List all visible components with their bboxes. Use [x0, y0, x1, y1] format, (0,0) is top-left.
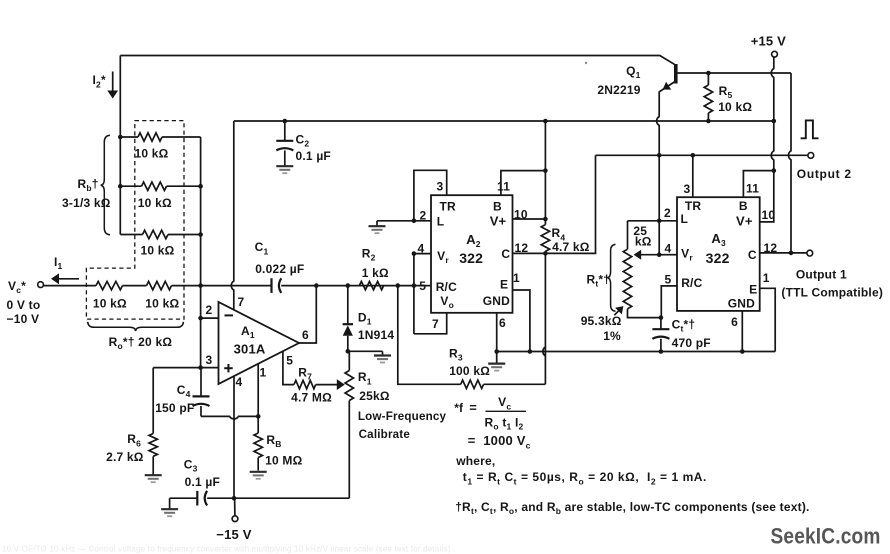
ground C2	[276, 166, 293, 173]
label Vc range1	[7, 298, 41, 312]
svg-text:Low-Frequency: Low-Frequency	[358, 410, 447, 423]
label A2 pin7	[432, 317, 439, 331]
wire A2 E row	[513, 290, 530, 352]
node rail R5	[706, 119, 711, 124]
svg-text:Ro t1 I2: Ro t1 I2	[485, 415, 524, 431]
wire R3 to pin12 vertical	[543, 253, 546, 384]
label R3 value	[449, 364, 490, 378]
wire top I2 feed line	[120, 56, 676, 66]
svg-text:Ct*†: Ct*†	[672, 317, 696, 333]
resistor R6 2.7k	[149, 434, 157, 457]
label C3	[184, 457, 198, 473]
node rail +15V lead	[772, 119, 777, 124]
label Rb-2 value	[138, 196, 172, 210]
label C4	[177, 383, 191, 399]
wire collector output vertical	[788, 73, 791, 253]
label Rt	[587, 272, 611, 288]
caption faint	[2, 545, 451, 554]
resistor Rb-3 10k	[120, 230, 200, 238]
svg-text:25kΩ: 25kΩ	[359, 389, 390, 403]
wire main row right of C1	[281, 285, 431, 287]
label C2	[296, 132, 310, 148]
label A3 pin5	[665, 272, 672, 286]
svg-text:4: 4	[665, 241, 672, 255]
terminal Vc input	[38, 282, 44, 288]
wire pin3 to R6	[152, 368, 154, 434]
note dagger	[455, 500, 809, 516]
node emitter A3 L join	[657, 219, 662, 224]
label R2	[362, 246, 376, 262]
transistor Q1 2N2219	[660, 64, 709, 92]
resistor Ro-2 10k	[147, 281, 172, 289]
wire A2 pin11 loop	[501, 171, 546, 196]
svg-text:0.022 µF: 0.022 µF	[255, 262, 304, 276]
label A2 B	[493, 199, 502, 213]
label A1 pin5	[286, 353, 293, 367]
svg-text:11: 11	[746, 181, 759, 195]
label R2 value	[362, 266, 389, 280]
wire A2 C out to top row	[545, 155, 595, 253]
svg-text:10 kΩ: 10 kΩ	[718, 100, 752, 114]
ground A2 pin2	[369, 226, 386, 233]
svg-text:1N914: 1N914	[358, 328, 394, 342]
label A1	[241, 324, 255, 340]
svg-text:10 kΩ: 10 kΩ	[93, 296, 127, 310]
label A3 TR	[685, 199, 702, 213]
wire A2 pin2 ground lead	[376, 221, 378, 226]
label A3 GND	[728, 296, 755, 310]
svg-text:B: B	[739, 199, 748, 213]
svg-text:V+: V+	[736, 213, 753, 228]
arrow I2 current	[107, 72, 118, 99]
svg-text:322: 322	[459, 250, 483, 266]
wire A3 pin4 row	[659, 254, 677, 256]
wire A2 pin4-5-7 vertical	[413, 254, 415, 334]
node A2 C out	[543, 251, 548, 256]
svg-text:L: L	[437, 215, 445, 229]
svg-text:1: 1	[763, 271, 770, 285]
label C1 value	[255, 262, 304, 276]
label R7 value	[291, 391, 332, 405]
label A2 pin3	[437, 179, 444, 193]
label A1 pin4	[236, 375, 243, 389]
wire D1 to ground	[348, 351, 383, 355]
wire A3 pin5 row	[661, 286, 677, 318]
capacitor C1	[272, 278, 282, 293]
svg-text:2: 2	[206, 303, 213, 317]
terminal -15V	[232, 498, 238, 521]
label A2 pin10	[514, 208, 528, 222]
node A2 RC tap	[412, 283, 417, 288]
node D1 top	[346, 283, 351, 288]
node A2 E join	[528, 349, 533, 354]
svg-text:=: =	[469, 400, 477, 415]
svg-text:1%: 1%	[603, 329, 621, 343]
resistor R3 100k	[461, 380, 484, 388]
arrow I1 current	[51, 273, 79, 284]
wire main row mid1	[123, 285, 147, 287]
svg-text:7: 7	[432, 317, 439, 331]
svg-text:kΩ: kΩ	[635, 234, 652, 248]
diode D1	[343, 286, 353, 352]
label R7	[298, 365, 312, 381]
label 301A	[234, 341, 266, 356]
svg-text:3: 3	[684, 182, 691, 196]
label Vc range2	[7, 312, 40, 326]
arrow Rt lower wiper	[614, 306, 623, 315]
ground C3	[161, 509, 178, 516]
svg-text:C: C	[748, 248, 757, 262]
node A2 V+ join	[543, 217, 548, 222]
label A2 pin6	[499, 316, 506, 330]
node A2 pin11 join	[543, 168, 548, 173]
label A2 GND	[483, 294, 510, 308]
label I1	[54, 255, 63, 271]
node Rb2 left	[118, 184, 123, 189]
label A3 pin2	[664, 206, 671, 220]
wire A1 pin3 row	[153, 367, 218, 369]
wire A2 pin7 loop	[414, 313, 447, 334]
wire A2 GND ground lead	[496, 352, 498, 364]
svg-text:0.1 µF: 0.1 µF	[185, 475, 220, 489]
label Ro-1 value	[93, 296, 127, 310]
logo SeekIC.com	[771, 524, 881, 549]
label A2 322	[459, 250, 483, 266]
label Ct	[672, 317, 696, 333]
label A3 L	[681, 212, 689, 226]
svg-text:Rt*†: Rt*†	[587, 272, 611, 288]
wire A1 pin2 row	[201, 317, 219, 319]
svg-text:10 V OF/TO 10 kHz — Control v: 10 V OF/TO 10 kHz — Control voltage to f…	[2, 545, 451, 554]
label A3 V+	[736, 213, 753, 228]
label Rt 95.3k	[581, 314, 622, 328]
wire -15V row	[170, 497, 350, 499]
label A3 pin6	[731, 315, 738, 329]
svg-text:4: 4	[236, 375, 243, 389]
svg-text:10 kΩ: 10 kΩ	[141, 244, 175, 258]
svg-text:V+: V+	[490, 214, 507, 229]
label A2 V+	[490, 214, 507, 229]
label A1 pin2	[206, 303, 213, 317]
symbol pulse wave	[801, 120, 819, 138]
label A3 name	[711, 231, 726, 248]
svg-text:= 1000 Vc: = 1000 Vc	[468, 433, 531, 450]
IC A2 box	[431, 195, 513, 313]
label A3 B	[739, 199, 748, 213]
svg-text:where,: where,	[455, 454, 495, 468]
svg-text:5: 5	[419, 279, 426, 293]
label Output 2	[797, 167, 852, 181]
label Vc	[8, 279, 26, 295]
node op-amp output junction	[314, 283, 319, 288]
node Rt bottom join	[659, 315, 664, 320]
node pin3 row	[198, 365, 203, 370]
svg-text:E: E	[500, 278, 508, 292]
label R1 value	[359, 389, 390, 403]
label RB value	[265, 453, 302, 467]
svg-text:4.7 MΩ: 4.7 MΩ	[291, 391, 332, 405]
label RB	[266, 433, 281, 449]
node D1 anode	[346, 349, 351, 354]
wire A3 pin2 row	[628, 220, 678, 222]
svg-text:(TTL Compatible): (TTL Compatible)	[781, 285, 883, 299]
terminal Output 1	[807, 250, 813, 256]
svg-text:10: 10	[762, 208, 776, 222]
label A1 pin3	[206, 353, 213, 367]
svg-text:1 kΩ: 1 kΩ	[362, 266, 389, 280]
label Output 1	[796, 268, 847, 282]
wire A3 GND stub	[741, 311, 743, 352]
wire A3 Vr wiper arrow	[634, 250, 660, 260]
wire C3 left ground lead	[169, 498, 171, 508]
label A2 TR	[440, 199, 457, 213]
svg-text:†Rt, Ct, Ro, and Rb are stable: †Rt, Ct, Ro, and Rb are stable, low-TC c…	[455, 500, 809, 516]
node main row x200	[198, 283, 203, 288]
svg-text:6: 6	[731, 315, 738, 329]
label Rb	[78, 177, 99, 193]
label A2 Vo	[440, 294, 454, 310]
ground R6	[145, 475, 162, 482]
wire Rb bank right vertical	[200, 137, 202, 368]
label R5 value	[718, 100, 752, 114]
label Rt 1pct	[603, 329, 621, 343]
wire R4 bottom lead	[544, 251, 546, 253]
label A2 pin4	[418, 241, 425, 255]
wire A2 pin12 row	[513, 252, 546, 254]
label A3 pin10	[762, 208, 776, 222]
label Ro-2 value	[145, 296, 179, 310]
label A2 name	[466, 232, 481, 249]
svg-text:7: 7	[238, 295, 245, 309]
label A2 pin2	[420, 208, 427, 222]
wire A3 pin11 loop	[743, 171, 773, 198]
capacitor C4	[193, 368, 210, 417]
label A3 Vr	[681, 246, 693, 262]
svg-text:470 pF: 470 pF	[672, 336, 711, 350]
svg-text:E: E	[749, 282, 757, 296]
wire A2 R3 drop	[398, 286, 461, 385]
label Q1 type	[597, 83, 640, 97]
node pin2 row	[198, 316, 203, 321]
svg-text:C: C	[501, 247, 510, 261]
wire A2 pin3 loop	[414, 170, 447, 221]
resistor Rt pot 25k+95.3k	[623, 221, 661, 318]
label A2 C	[501, 247, 510, 261]
wire A1 pin5	[283, 351, 294, 384]
label R6	[127, 432, 141, 448]
resistor R7 4.7M	[294, 380, 316, 388]
wire C4 to RB row	[201, 416, 258, 419]
label A3 R/C	[681, 276, 702, 290]
resistor Rb-2 10k	[120, 182, 200, 190]
node ground row Ct	[659, 349, 664, 354]
brace Rt	[607, 244, 615, 311]
svg-text:−10 V: −10 V	[7, 312, 40, 326]
svg-text:3-1/3 kΩ: 3-1/3 kΩ	[62, 196, 111, 210]
label C4 value	[155, 401, 194, 415]
svg-text:10 MΩ: 10 MΩ	[265, 453, 302, 467]
svg-text:Output 1: Output 1	[796, 268, 847, 282]
label R5	[719, 84, 733, 100]
note where	[455, 454, 495, 468]
svg-text:Calibrate: Calibrate	[359, 428, 411, 441]
resistor R5 10k	[704, 73, 712, 121]
capacitor C3	[197, 491, 207, 506]
node A2 pin4	[412, 251, 417, 256]
svg-text:100 kΩ: 100 kΩ	[449, 364, 490, 378]
label A2 pin5	[419, 279, 426, 293]
node output row emitter join	[657, 153, 662, 158]
label Rb-1 value	[135, 147, 169, 161]
node emitter A3 Vr join	[657, 252, 662, 257]
svg-text:L: L	[681, 212, 689, 226]
svg-text:1: 1	[260, 365, 267, 379]
label D1	[358, 310, 372, 326]
node rail A2 V+ feed	[543, 119, 548, 124]
svg-text:GND: GND	[728, 296, 755, 310]
svg-text:6: 6	[499, 316, 506, 330]
label A3 C	[748, 248, 757, 262]
svg-text:GND: GND	[483, 294, 510, 308]
wire A3 V+ branch	[760, 171, 774, 222]
node RB top	[256, 414, 261, 419]
svg-text:0 V to: 0 V to	[7, 298, 41, 312]
label A2 Vr	[437, 249, 449, 265]
node Output1 join	[789, 251, 794, 256]
label A3 322	[706, 250, 730, 266]
label R1 note2	[359, 428, 411, 441]
wire A3 E row	[760, 288, 776, 351]
label A3 pin3	[684, 182, 691, 196]
wire Q1 emitter vertical	[657, 91, 660, 254]
svg-text:301A: 301A	[234, 341, 266, 356]
wire R3 right	[484, 383, 546, 385]
svg-text:10 kΩ: 10 kΩ	[145, 296, 179, 310]
wire A2 GND stub	[496, 313, 498, 352]
label A3 pin4	[665, 241, 672, 255]
node Rb3 right	[198, 232, 203, 237]
label R3	[449, 346, 463, 362]
node A2 GND	[494, 349, 499, 354]
artifact speck	[585, 62, 587, 64]
label A2 R/C	[436, 280, 457, 294]
wire A2 pin4 stub	[414, 253, 431, 255]
terminal +15V	[772, 51, 778, 57]
terminal Output 2	[808, 153, 814, 159]
wire A3 C out row	[760, 252, 807, 254]
resistor R4 4.7k	[541, 225, 549, 252]
wire A1 pin4 vertical	[233, 376, 235, 498]
svg-text:2N2219: 2N2219	[597, 83, 640, 97]
node A2 pin2/3 join	[412, 219, 417, 224]
label R4	[552, 226, 566, 242]
formula f definition	[454, 395, 526, 431]
label A2 L	[437, 215, 445, 229]
capacitor Ct	[652, 318, 669, 352]
svg-text:11: 11	[497, 179, 510, 193]
wire Q1 collector row	[708, 72, 791, 74]
svg-text:10 kΩ: 10 kΩ	[138, 196, 172, 210]
wire +15V rail	[234, 120, 774, 122]
label A3 E	[749, 282, 757, 296]
label R6 value	[106, 450, 144, 464]
label A2 E	[500, 278, 508, 292]
svg-text:4.7 kΩ: 4.7 kΩ	[552, 240, 590, 254]
label Rb value	[62, 196, 111, 210]
label C2 value	[296, 149, 331, 163]
label Rb-3 value	[141, 244, 175, 258]
label I2	[93, 73, 106, 89]
ground A2 GND	[488, 364, 505, 371]
label A2 pin1	[513, 271, 520, 285]
label -15V	[216, 527, 251, 542]
node Rb2 right	[198, 184, 203, 189]
svg-text:TR: TR	[685, 199, 702, 213]
label A3 pin1	[763, 271, 770, 285]
node Rb1 left	[118, 135, 123, 140]
svg-text:1: 1	[513, 271, 520, 285]
label Ro	[109, 335, 173, 351]
svg-text:3: 3	[206, 353, 213, 367]
wire A2 V+ vertical upper	[544, 121, 546, 225]
label Rt 25	[633, 224, 647, 238]
wire R6 to ground	[152, 456, 154, 474]
svg-text:B: B	[493, 199, 502, 213]
label C1	[255, 240, 269, 256]
svg-text:R/C: R/C	[436, 280, 457, 294]
label Q1	[626, 64, 641, 80]
wire ground row	[497, 351, 776, 353]
svg-text:5: 5	[286, 353, 293, 367]
node +15V A3 supply join	[772, 168, 777, 173]
node R5 top	[706, 71, 711, 76]
svg-text:SeekIC.com: SeekIC.com	[771, 524, 881, 549]
label A2 pin11	[497, 179, 510, 193]
wire output row	[596, 154, 808, 156]
svg-text:Output 2: Output 2	[797, 167, 852, 181]
label TTL	[781, 285, 883, 299]
svg-text:150 pF: 150 pF	[155, 401, 194, 415]
label A3 pin12	[764, 241, 778, 255]
label Rt kohm	[635, 234, 652, 248]
svg-text:−15 V: −15 V	[216, 527, 251, 542]
svg-text:R/C: R/C	[681, 276, 702, 290]
resistor R1 25k pot	[345, 351, 353, 498]
label R1	[358, 370, 372, 386]
svg-text:10 kΩ: 10 kΩ	[135, 147, 169, 161]
wire main row left	[44, 285, 97, 287]
label A1 pin1	[260, 365, 267, 379]
label A2 pin12	[515, 241, 529, 255]
wire A1 pin7 vertical	[231, 121, 234, 310]
wire A2 pin10 row	[513, 218, 546, 220]
wire A1 pin1 vertical	[257, 364, 259, 416]
label Ct value	[672, 336, 711, 350]
resistor RB 10M	[254, 416, 262, 470]
svg-text:2.7 kΩ: 2.7 kΩ	[106, 450, 144, 464]
ground D1	[374, 356, 391, 363]
svg-text:322: 322	[706, 250, 730, 266]
svg-text:2: 2	[664, 206, 671, 220]
capacitor C2	[276, 121, 293, 166]
label +15V	[751, 33, 786, 48]
label A1 pin6	[302, 328, 309, 342]
wire main row mid2	[172, 285, 271, 287]
node output row A3 TR join	[691, 153, 696, 158]
wire +15V lead	[771, 57, 774, 171]
dashed box Rb/Ro outline	[86, 121, 184, 320]
wire A1 pin6 output	[299, 286, 316, 343]
